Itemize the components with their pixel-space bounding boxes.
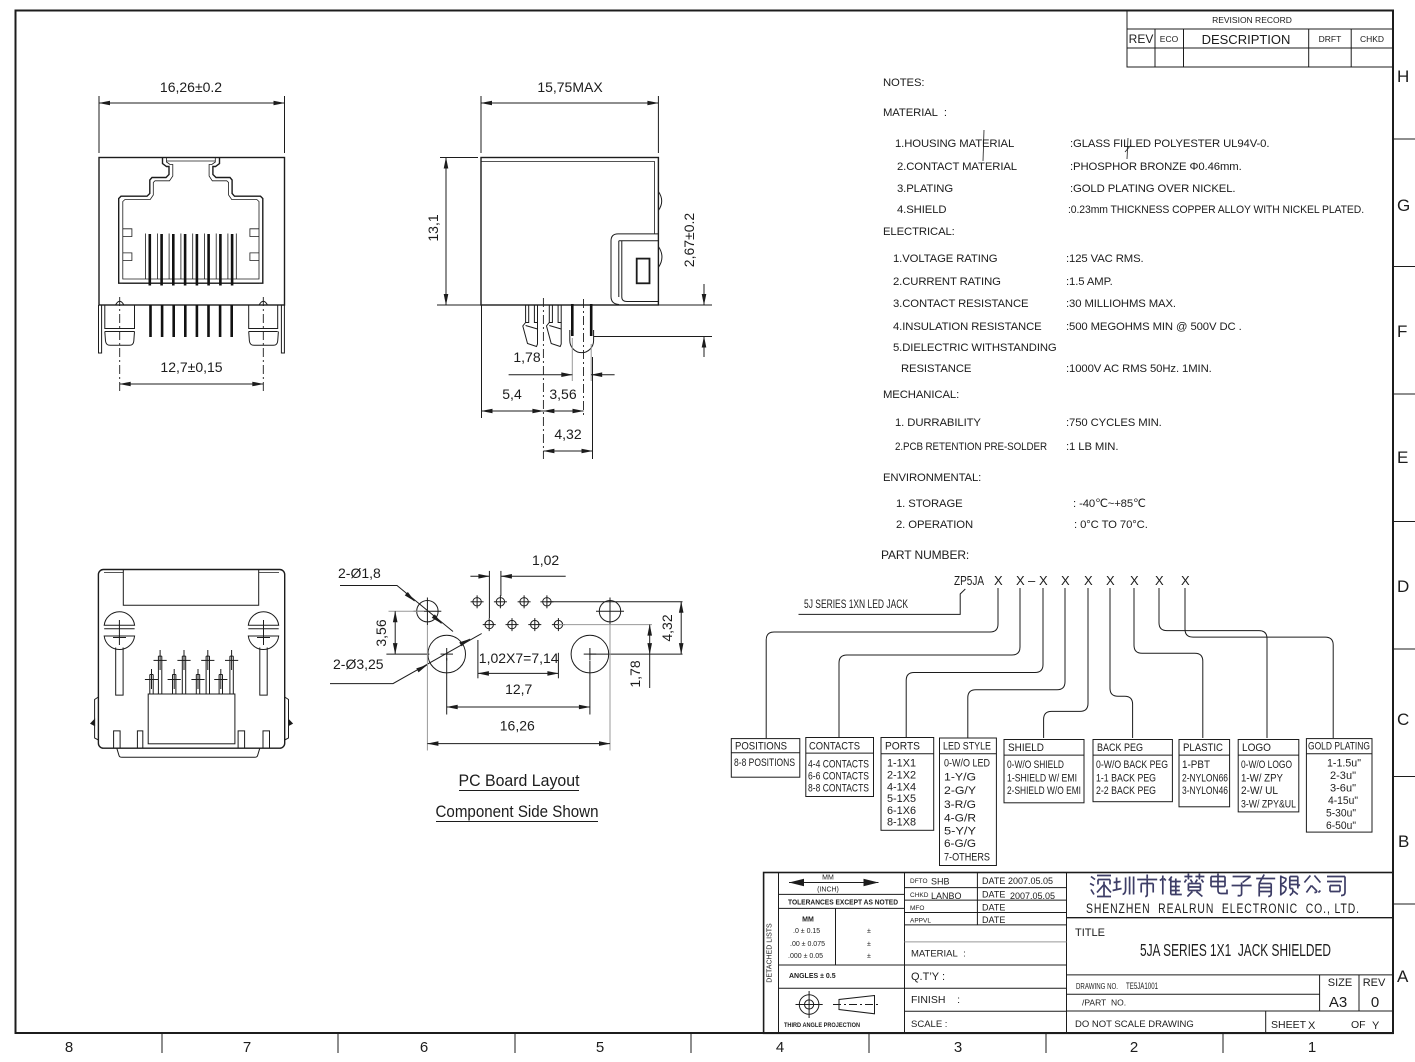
- front view leg centerlines: [120, 297, 264, 392]
- svg-text:0-W/O LED: 0-W/O LED: [944, 758, 990, 770]
- svg-text:3: 3: [954, 1039, 962, 1056]
- svg-text:X: X: [1181, 573, 1190, 588]
- svg-text:THIRD ANGLE PROJECTION: THIRD ANGLE PROJECTION: [784, 1022, 860, 1029]
- svg-text:A3: A3: [1329, 994, 1347, 1011]
- detached lists vertical text: [767, 923, 774, 983]
- revision record table: [1127, 11, 1393, 68]
- front view latch window right tabs: [250, 229, 259, 261]
- svg-text:6-G/G: 6-G/G: [944, 838, 976, 850]
- svg-text:RESISTANCE: RESISTANCE: [901, 363, 972, 375]
- svg-text:16,26±0.2: 16,26±0.2: [160, 79, 222, 95]
- tolerance table texts: [788, 917, 871, 981]
- svg-text:8-1X8: 8-1X8: [887, 817, 916, 829]
- svg-text:ELECTRICAL:: ELECTRICAL:: [883, 226, 955, 238]
- dim 1,02 pcb: [470, 552, 565, 618]
- svg-text:6-1X6: 6-1X6: [887, 805, 916, 817]
- svg-text:16,26: 16,26: [500, 718, 535, 734]
- svg-text:A: A: [1397, 967, 1409, 986]
- box CONTACTS: [806, 738, 874, 797]
- bottom view left side tab: [91, 697, 99, 740]
- side view pcb baseline: [437, 304, 712, 306]
- svg-text::1 LB MIN.: :1 LB MIN.: [1066, 441, 1118, 453]
- side view body outline: [481, 158, 658, 306]
- svg-text::500 MEGOHMS MIN @ 500V DC .: :500 MEGOHMS MIN @ 500V DC .: [1066, 321, 1242, 333]
- svg-text:2: 2: [1130, 1039, 1138, 1056]
- dim 12,7 pcb: [447, 658, 590, 715]
- svg-text:3,56: 3,56: [373, 619, 389, 646]
- svg-text:0: 0: [1371, 994, 1379, 1011]
- svg-text:DETACHED LISTS: DETACHED LISTS: [767, 923, 774, 983]
- title label: [1075, 927, 1105, 939]
- svg-text:X: X: [994, 573, 1003, 588]
- svg-text:.0 ± 0.15: .0 ± 0.15: [793, 928, 820, 935]
- svg-text:POSITIONS: POSITIONS: [735, 741, 787, 753]
- svg-text::125 VAC RMS.: :125 VAC RMS.: [1066, 253, 1144, 265]
- bottom view front lip: [117, 748, 260, 757]
- tolerances except as noted: [788, 900, 898, 907]
- pcb ext line gray right: [558, 624, 652, 626]
- svg-text::750 CYCLES MIN.: :750 CYCLES MIN.: [1066, 417, 1162, 429]
- tree curve to LED STYLE: [968, 596, 1065, 738]
- svg-text:2007.05.05: 2007.05.05: [1008, 876, 1053, 886]
- bottom view right screw peg: [248, 612, 278, 650]
- svg-text:TE5JA1001: TE5JA1001: [1126, 981, 1158, 991]
- box SHIELD: [1004, 740, 1084, 803]
- svg-text:1,02X7=7,14: 1,02X7=7,14: [479, 650, 559, 666]
- svg-text:6-6 CONTACTS: 6-6 CONTACTS: [808, 771, 869, 783]
- side view shield spring bumps: [658, 192, 662, 268]
- svg-text:APPVL: APPVL: [910, 918, 931, 925]
- svg-text:3-R/G: 3-R/G: [944, 799, 976, 811]
- front view body outline: [99, 158, 285, 306]
- svg-text:DRFT: DRFT: [1319, 34, 1342, 44]
- svg-text:MATERIAL :: MATERIAL :: [911, 949, 966, 960]
- bottom view short contact tails: [150, 675, 223, 695]
- tree curve to POSITIONS: [766, 596, 998, 738]
- BOTTOM VIEW: [91, 570, 292, 758]
- svg-text:LED STYLE: LED STYLE: [943, 741, 991, 753]
- tolerance column lines: [779, 894, 905, 988]
- svg-text:1-SHIELD W/ EMI: 1-SHIELD W/ EMI: [1007, 773, 1077, 785]
- side view shield tab centerline: [583, 299, 585, 418]
- box LED STYLE: [940, 738, 997, 866]
- FRONT VIEW: [99, 79, 285, 392]
- pcb pin holes top row: [471, 595, 554, 608]
- front view 8 solder pins: [151, 305, 232, 337]
- svg-text:1,02: 1,02: [532, 552, 559, 568]
- svg-text:2-G/Y: 2-G/Y: [944, 785, 977, 797]
- svg-text:X: X: [1084, 573, 1093, 588]
- dim 4,32 side: [543, 357, 592, 459]
- dim 1,78 pcb: [627, 625, 650, 688]
- svg-text:MFO: MFO: [910, 905, 924, 912]
- svg-text:12,7±0,15: 12,7±0,15: [160, 359, 222, 375]
- tree curve to PLASTIC: [1134, 596, 1203, 738]
- svg-text:0-W/O LOGO: 0-W/O LOGO: [1241, 759, 1292, 771]
- drawing no texts: [1075, 977, 1386, 1032]
- svg-text:TOLERANCES EXCEPT AS NOTED: TOLERANCES EXCEPT AS NOTED: [788, 900, 898, 907]
- company chinese name strokes: [1090, 874, 1345, 897]
- bottom view rear wall rect: [123, 570, 258, 606]
- side view latch step: [611, 234, 658, 305]
- svg-text:5JA SERIES 1X1 JACK SHIELDED: 5JA SERIES 1X1 JACK SHIELDED: [1140, 940, 1331, 960]
- svg-text:2-SHIELD W/O EMI: 2-SHIELD W/O EMI: [1007, 785, 1081, 797]
- svg-text:2-2 BACK PEG: 2-2 BACK PEG: [1096, 785, 1156, 797]
- svg-text:13,1: 13,1: [425, 214, 441, 241]
- mm inch arrow symbol: [789, 875, 879, 894]
- svg-text:OF: OF: [1351, 1019, 1366, 1031]
- tree curve to CONTACTS: [839, 596, 1020, 738]
- svg-text:NOTES:: NOTES:: [883, 77, 924, 89]
- approval rows text: [910, 876, 1055, 925]
- svg-text:1,78: 1,78: [627, 660, 643, 687]
- label PC Board Layout: [459, 772, 580, 791]
- svg-text:X: X: [1308, 1020, 1316, 1032]
- pcb line right circle center: [590, 653, 683, 655]
- svg-text:X: X: [1106, 573, 1115, 588]
- zone ticks bottom: [162, 1033, 1223, 1053]
- material qty finish scale labels: [911, 949, 966, 1031]
- svg-text:MATERIAL :: MATERIAL :: [883, 107, 947, 119]
- TITLE BLOCK: [764, 873, 1393, 1034]
- front view body bottom edge notches: [116, 301, 268, 305]
- svg-text:15,75MAX: 15,75MAX: [537, 79, 603, 95]
- svg-text:–: –: [1028, 573, 1036, 588]
- svg-text:X: X: [1061, 573, 1070, 588]
- front view shield side skirts: [99, 305, 285, 353]
- svg-text:2.PCB RETENTION PRE-SOLDER: 2.PCB RETENTION PRE-SOLDER: [895, 441, 1047, 453]
- bottom view center contact block: [148, 694, 235, 744]
- front view left mounting leg: [105, 305, 135, 345]
- svg-text::1.5 AMP.: :1.5 AMP.: [1066, 276, 1113, 288]
- bottom view bottom feet: [114, 731, 270, 748]
- svg-text:X: X: [1016, 573, 1025, 588]
- svg-text:MM: MM: [822, 875, 834, 882]
- svg-text::1000V AC RMS 50Hz. 1MIN.: :1000V AC RMS 50Hz. 1MIN.: [1066, 363, 1212, 375]
- third angle projection symbol circle: [796, 991, 823, 1018]
- svg-text:Component Side Shown: Component Side Shown: [436, 803, 599, 821]
- svg-text:4,32: 4,32: [659, 614, 675, 641]
- dim 13,1: [425, 158, 478, 306]
- middle section row lines: [905, 873, 1067, 1012]
- svg-text:4.INSULATION RESISTANCE: 4.INSULATION RESISTANCE: [893, 321, 1042, 333]
- front view jack cavity outer contour: [119, 158, 263, 284]
- box PORTS: [881, 738, 934, 831]
- side view plastic peg 2: [547, 305, 562, 347]
- dim 3,56 pcb: [373, 611, 429, 654]
- bottom view top edge detail lines: [104, 572, 279, 574]
- svg-text:ANGLES ± 0.5: ANGLES ± 0.5: [789, 973, 836, 980]
- svg-text:2-3u": 2-3u": [1330, 770, 1356, 782]
- svg-text:SIZE: SIZE: [1328, 977, 1352, 989]
- tree curve to PORTS: [906, 596, 1043, 738]
- svg-text:2-Ø3,25: 2-Ø3,25: [333, 656, 384, 672]
- bottom view right side tab: [285, 697, 293, 740]
- svg-text:CHKD: CHKD: [910, 892, 929, 899]
- svg-text:B: B: [1398, 832, 1409, 851]
- svg-text::0.23mm THICKNESS COPPER ALLOY: :0.23mm THICKNESS COPPER ALLOY WITH NICK…: [1068, 204, 1364, 216]
- svg-text:4-G/R: 4-G/R: [944, 812, 976, 824]
- side view shield ground tab: [570, 304, 594, 353]
- dim 1,02X7=7,14: [478, 640, 559, 678]
- svg-text::GLASS FILLED POLYESTER UL94V-: :GLASS FILLED POLYESTER UL94V-0.: [1070, 138, 1269, 150]
- svg-text:H: H: [1397, 67, 1409, 86]
- dim 16,26±0.2: [99, 79, 285, 153]
- svg-text:DO NOT SCALE DRAWING: DO NOT SCALE DRAWING: [1075, 1019, 1194, 1030]
- bottom view left screw peg: [104, 612, 134, 650]
- svg-text:±: ±: [867, 953, 871, 960]
- drawing title text: [1140, 940, 1331, 960]
- tree curve to SHIELD: [1044, 596, 1088, 738]
- bottom view tall contact tails: [158, 656, 233, 694]
- svg-text:SHENZHEN REALRUN ELECTRONIC: SHENZHEN REALRUN ELECTRONIC CO., LTD.: [1086, 901, 1360, 916]
- side view body double edge: [481, 162, 655, 234]
- tree curve to BACK PEG: [1110, 596, 1133, 738]
- svg-text:4-4 CONTACTS: 4-4 CONTACTS: [808, 759, 869, 771]
- svg-text:1-Y/G: 1-Y/G: [944, 771, 976, 783]
- svg-text::30 MILLIOHMS MAX.: :30 MILLIOHMS MAX.: [1066, 298, 1176, 310]
- svg-text:7: 7: [243, 1039, 251, 1056]
- dim 12,7±0,15: [120, 359, 264, 384]
- svg-text:REV: REV: [1363, 977, 1386, 989]
- box GOLD PLATING: [1306, 739, 1372, 833]
- side view peg pair centerline: [542, 298, 544, 459]
- PART NUMBER TREE: [731, 573, 1372, 866]
- svg-text:/PART NO.: /PART NO.: [1082, 998, 1126, 1008]
- svg-text:E: E: [1397, 448, 1408, 467]
- svg-text:2007.05.05: 2007.05.05: [1010, 891, 1055, 901]
- tree curve to GOLD PLATING: [1185, 596, 1333, 738]
- bottom view left peg stem: [116, 648, 123, 696]
- leader 2-phi1,8: [338, 565, 453, 632]
- svg-text:5-Y/Y: 5-Y/Y: [944, 825, 977, 837]
- third angle projection cone: [833, 996, 880, 1014]
- bottom view short tail crosses: [145, 669, 228, 689]
- side view body-left extension line: [481, 305, 483, 418]
- label 5J SERIES 1XN LED JACK: [799, 589, 966, 614]
- svg-text:SHEET: SHEET: [1271, 1019, 1307, 1031]
- company english name: [1086, 901, 1360, 916]
- notes text block: [881, 77, 1364, 562]
- svg-text:ZP5JA: ZP5JA: [954, 573, 984, 588]
- svg-text:F: F: [1397, 322, 1407, 341]
- svg-text:1.VOLTAGE RATING: 1.VOLTAGE RATING: [893, 253, 997, 265]
- svg-text:1,78: 1,78: [513, 349, 540, 365]
- dim 5,4: [482, 386, 544, 411]
- svg-text:D: D: [1397, 577, 1409, 596]
- svg-text:1-PBT: 1-PBT: [1182, 759, 1210, 771]
- zone numbers bottom: [65, 1039, 1316, 1056]
- svg-text:5-1X5: 5-1X5: [887, 793, 916, 805]
- svg-text::PHOSPHOR BRONZE Φ0.46mm.: :PHOSPHOR BRONZE Φ0.46mm.: [1070, 161, 1242, 173]
- svg-text:2-1X2: 2-1X2: [887, 770, 916, 782]
- svg-text:8-8 POSITIONS: 8-8 POSITIONS: [734, 757, 795, 769]
- svg-text:3-NYLON46: 3-NYLON46: [1182, 785, 1228, 797]
- side view plastic peg 1: [523, 305, 538, 347]
- svg-text:5: 5: [596, 1039, 604, 1056]
- svg-text:4-1X4: 4-1X4: [887, 782, 916, 794]
- svg-text:5,4: 5,4: [502, 386, 522, 402]
- svg-text:4: 4: [776, 1039, 784, 1056]
- svg-text:DATE: DATE: [982, 903, 1005, 913]
- svg-text:(INCH): (INCH): [817, 887, 839, 894]
- leader 2-phi3,25: [330, 634, 482, 684]
- svg-text:PC Board Layout: PC Board Layout: [459, 772, 580, 790]
- svg-text:PORTS: PORTS: [885, 741, 920, 753]
- dim 15,75MAX: [481, 79, 658, 153]
- dim 1,78 side: [509, 338, 615, 381]
- box PLASTIC: [1179, 740, 1230, 807]
- pcb ext line top right: [547, 601, 683, 603]
- svg-text:5.DIELECTRIC WITHSTANDING: 5.DIELECTRIC WITHSTANDING: [893, 342, 1057, 354]
- svg-text:3.PLATING: 3.PLATING: [897, 183, 953, 195]
- box BACK PEG: [1093, 740, 1172, 802]
- svg-text:3-W/ ZPY&UL: 3-W/ ZPY&UL: [1241, 799, 1296, 811]
- svg-text:6: 6: [420, 1039, 428, 1056]
- svg-text:2-Ø1,8: 2-Ø1,8: [338, 565, 381, 581]
- svg-text:DESCRIPTION: DESCRIPTION: [1202, 32, 1291, 47]
- svg-text:REVISION RECORD: REVISION RECORD: [1212, 15, 1292, 25]
- pcb hole phi1.8 right: [596, 598, 624, 626]
- svg-text:1-W/ ZPY: 1-W/ ZPY: [1241, 773, 1284, 785]
- dim 2,67±0.2: [681, 213, 704, 357]
- svg-text:PART NUMBER:: PART NUMBER:: [881, 548, 969, 562]
- svg-text:X: X: [1130, 573, 1139, 588]
- bottom view tall tail crosses: [154, 650, 239, 670]
- svg-text:DFTO: DFTO: [910, 878, 928, 885]
- box POSITIONS: [731, 739, 800, 778]
- svg-text:4,32: 4,32: [554, 426, 581, 442]
- side view pcb bottom line: [594, 336, 713, 338]
- front view contact slot thin lines: [146, 234, 237, 280]
- front view jack cavity inner wall contour: [123, 158, 259, 284]
- svg-text:8-8 CONTACTS: 8-8 CONTACTS: [808, 782, 869, 794]
- svg-text:1. DURRABILITY: 1. DURRABILITY: [895, 417, 981, 429]
- svg-text:G: G: [1397, 196, 1410, 215]
- stray scan marks: [983, 130, 1131, 161]
- svg-text:1. STORAGE: 1. STORAGE: [896, 498, 963, 510]
- svg-text:2. OPERATION: 2. OPERATION: [896, 519, 973, 531]
- drawing no row lines: [1067, 975, 1394, 1033]
- svg-text:CONTACTS: CONTACTS: [809, 741, 860, 753]
- svg-text:DATE: DATE: [982, 876, 1005, 886]
- svg-text:6-50u": 6-50u": [1326, 820, 1356, 832]
- svg-text:4-15u": 4-15u": [1328, 795, 1358, 807]
- pcb pin holes bottom row: [483, 618, 565, 631]
- svg-text:1.HOUSING MATERIAL: 1.HOUSING MATERIAL: [895, 138, 1014, 150]
- svg-text:MECHANICAL:: MECHANICAL:: [883, 389, 959, 401]
- svg-text:LOGO: LOGO: [1242, 742, 1271, 754]
- bottom view right peg stem: [260, 648, 267, 696]
- svg-text:3.CONTACT RESISTANCE: 3.CONTACT RESISTANCE: [893, 298, 1029, 310]
- svg-text:: -40℃~+85℃: : -40℃~+85℃: [1073, 498, 1146, 510]
- svg-text:C: C: [1397, 710, 1409, 729]
- svg-text:.000 ± 0.05: .000 ± 0.05: [788, 953, 823, 960]
- svg-text:LANBO: LANBO: [931, 891, 962, 901]
- zone letters right: [1397, 67, 1410, 986]
- side view pcb latch window: [637, 259, 650, 284]
- third angle projection label: [784, 1022, 860, 1029]
- svg-text:Q.T’Y :: Q.T’Y :: [911, 971, 945, 983]
- svg-text:2-NYLON66: 2-NYLON66: [1182, 773, 1228, 785]
- svg-text:±: ±: [867, 941, 871, 948]
- pcb hole phi1.8 left: [414, 598, 442, 626]
- zone ticks right: [1393, 139, 1415, 904]
- svg-text:SHB: SHB: [931, 877, 950, 887]
- title block outer frame: [764, 873, 1393, 1034]
- svg-text:PLASTIC: PLASTIC: [1183, 742, 1223, 754]
- svg-text:2,67±0.2: 2,67±0.2: [681, 213, 697, 268]
- dim 3,56 side: [543, 386, 583, 411]
- svg-text:3,56: 3,56: [549, 386, 576, 402]
- ticks under X characters: [998, 588, 1185, 596]
- svg-text:±: ±: [867, 928, 871, 935]
- svg-text::GOLD PLATING OVER NICKEL.: :GOLD PLATING OVER NICKEL.: [1070, 183, 1235, 195]
- company section divider: [1067, 917, 1394, 919]
- svg-text:1: 1: [1308, 1039, 1316, 1056]
- pcb hole phi3.25 left: [428, 635, 466, 673]
- svg-text:ECO: ECO: [1160, 34, 1179, 44]
- dim 16,26 pcb: [427, 625, 610, 751]
- svg-text:3-6u": 3-6u": [1330, 783, 1356, 795]
- part number code row: [954, 573, 1190, 588]
- svg-text:0-W/O SHIELD: 0-W/O SHIELD: [1007, 759, 1064, 771]
- svg-text:12,7: 12,7: [505, 681, 532, 697]
- svg-text:ENVIRONMENTAL:: ENVIRONMENTAL:: [883, 472, 981, 484]
- svg-text:SCALE :: SCALE :: [911, 1019, 947, 1030]
- svg-text:GOLD PLATING: GOLD PLATING: [1308, 741, 1370, 753]
- svg-text:5J SERIES 1XN LED JACK: 5J SERIES 1XN LED JACK: [804, 599, 908, 611]
- svg-text:2.CURRENT RATING: 2.CURRENT RATING: [893, 276, 1001, 288]
- tree curve to LOGO: [1159, 596, 1267, 738]
- svg-text:7-OTHERS: 7-OTHERS: [944, 852, 990, 864]
- svg-text:1-1 BACK PEG: 1-1 BACK PEG: [1096, 773, 1156, 785]
- bottom view outer body: [98, 570, 284, 749]
- svg-text:DATE: DATE: [982, 890, 1005, 900]
- front view 8 contacts in cavity: [150, 234, 232, 286]
- svg-text:2.CONTACT MATERIAL: 2.CONTACT MATERIAL: [897, 161, 1017, 173]
- svg-text:X: X: [1155, 573, 1164, 588]
- svg-text:8: 8: [65, 1039, 73, 1056]
- svg-text:FINISH :: FINISH :: [911, 994, 960, 1006]
- svg-text:DATE: DATE: [982, 915, 1005, 925]
- svg-text:2-W/ UL: 2-W/ UL: [1241, 785, 1278, 797]
- svg-text:5-30u": 5-30u": [1326, 808, 1356, 820]
- svg-text:CHKD: CHKD: [1360, 34, 1384, 44]
- svg-text:DRAWING NO.: DRAWING NO.: [1076, 981, 1118, 991]
- box LOGO: [1238, 740, 1299, 812]
- dim 4,32 pcb: [659, 602, 681, 654]
- svg-text:BACK PEG: BACK PEG: [1097, 742, 1143, 754]
- svg-text:4.SHIELD: 4.SHIELD: [897, 204, 946, 216]
- svg-text:1-1X1: 1-1X1: [887, 758, 916, 770]
- svg-text:: 0°C TO 70°C.: : 0°C TO 70°C.: [1074, 519, 1148, 531]
- svg-text:REV: REV: [1129, 32, 1154, 46]
- svg-text:Y: Y: [1372, 1020, 1380, 1032]
- svg-text:0-W/O BACK PEG: 0-W/O BACK PEG: [1096, 759, 1168, 771]
- svg-text:1-1.5u": 1-1.5u": [1327, 758, 1361, 770]
- front view latch window left tabs: [123, 229, 132, 261]
- svg-text:.00 ± 0.075: .00 ± 0.075: [790, 941, 825, 948]
- svg-text:SHIELD: SHIELD: [1008, 742, 1044, 754]
- svg-text:TITLE: TITLE: [1075, 927, 1105, 939]
- front view right mounting leg: [249, 305, 279, 345]
- label Component Side Shown: [436, 803, 599, 822]
- svg-text:MM: MM: [802, 917, 814, 924]
- SIDE VIEW: [425, 79, 712, 459]
- PCB LAYOUT: [330, 552, 683, 822]
- svg-text:X: X: [1039, 573, 1048, 588]
